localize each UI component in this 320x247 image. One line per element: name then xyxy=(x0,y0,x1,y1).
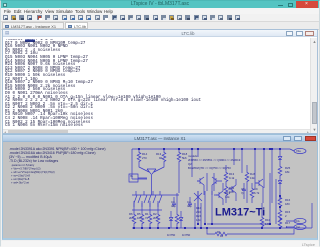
svg-text:XSa: XSa xyxy=(296,150,301,153)
svg-text:1N750: 1N750 xyxy=(182,233,191,237)
svg-text:2k4: 2k4 xyxy=(153,216,158,220)
svg-text:XInL: XInL xyxy=(295,220,301,223)
svg-text:XaL: XaL xyxy=(296,226,301,229)
svg-text:.TI.D (BL232x) for Low voltage: .TI.D (BL232x) for Low voltages xyxy=(9,159,58,163)
svg-text:13k: 13k xyxy=(250,176,255,180)
svg-text:72: 72 xyxy=(145,216,149,220)
svg-text:+ vo=(.5to)^2+8: + vo=(.5to)^2+8 xyxy=(11,174,30,178)
svg-text:+ Vin=+3.7/80^2*expl.(2): + Vin=+3.7/80^2*expl.(2) xyxy=(11,167,41,171)
svg-text:180: 180 xyxy=(285,202,290,206)
svg-text:10: 10 xyxy=(220,234,224,238)
svg-text:BCW60/QTD << 3Q750 << 3Q750: BCW60/QTD << 3Q750 << 3Q750 xyxy=(188,166,231,170)
svg-text:7p: 7p xyxy=(241,191,245,195)
svg-text:48p: 48p xyxy=(171,204,176,208)
svg-text:6.7k: 6.7k xyxy=(254,191,260,195)
svg-text:2: 2 xyxy=(285,214,287,218)
svg-text:140: 140 xyxy=(265,222,270,226)
svg-text:1N750: 1N750 xyxy=(167,233,176,237)
svg-text:5k6: 5k6 xyxy=(182,156,187,160)
svg-text:9.1k: 9.1k xyxy=(229,176,235,180)
svg-text:18k: 18k xyxy=(285,170,290,174)
svg-text:160: 160 xyxy=(137,216,142,220)
svg-text:2k4: 2k4 xyxy=(129,216,134,220)
svg-text:270: 270 xyxy=(142,156,147,160)
svg-text:+ vd=+e^2*expl.4sq(50(m)^2(1)*: + vd=+e^2*expl.4sq(50(m)^2(1)*K(2) xyxy=(11,170,55,174)
svg-text:.params m=.5,batry: .params m=.5,batry xyxy=(11,163,35,167)
svg-text:LM317~Ti: LM317~Ti xyxy=(215,207,265,219)
svg-text:XL: XL xyxy=(130,175,134,178)
svg-text:48p: 48p xyxy=(187,204,192,208)
svg-text:2N5550 << 2N5551 << Q3904 << 2: 2N5550 << 2N5551 << Q3904 << 2N3019 xyxy=(188,158,241,162)
svg-text:12k: 12k xyxy=(196,218,201,222)
svg-text:92: 92 xyxy=(159,156,163,160)
svg-text:12k: 12k xyxy=(225,195,230,199)
svg-text:+ wd=.5to^2 wt: + wd=.5to^2 wt xyxy=(11,181,29,185)
svg-text:+ uo=(bta)^2+8: + uo=(bta)^2+8 xyxy=(11,177,30,181)
